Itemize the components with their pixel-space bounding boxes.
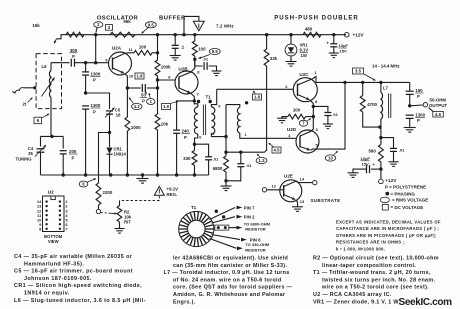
marker oval 7: [299, 120, 307, 126]
node U2B collector junction: [193, 58, 196, 61]
IC U2 pin 6: [59, 223, 61, 225]
resistor 15k: [66, 32, 84, 37]
svg-text:100: 100: [198, 47, 206, 52]
svg-text:CR1 — Silicon high-speed switc: CR1 — Silicon high-speed switching diode…: [14, 283, 142, 289]
capacitor C5 16pF trimmer: [106, 110, 113, 112]
marker oval 10: [325, 155, 335, 161]
svg-text:P: P: [184, 135, 187, 140]
svg-text:10μF: 10μF: [339, 43, 349, 48]
svg-text:35: 35: [28, 151, 33, 156]
svg-text:U2E: U2E: [284, 174, 293, 179]
wire secondary A top to U2C base: [217, 88, 294, 90]
svg-text:Johnson 187-0109-005.: Johnson 187-0109-005.: [24, 276, 92, 282]
U2B base wire: [158, 79, 176, 81]
IC U2 pin 8: [45, 228, 47, 230]
svg-text:9: 9: [218, 105, 220, 109]
svg-text:7.2 MHz: 7.2 MHz: [216, 23, 234, 28]
svg-text:16: 16: [116, 113, 121, 118]
svg-text:P: P: [142, 99, 145, 104]
svg-text:560: 560: [368, 148, 376, 153]
svg-text:U2 — RCA CA3045 array IC.: U2 — RCA CA3045 array IC.: [313, 292, 392, 298]
node base junction: [94, 61, 97, 64]
resistor 330: [194, 144, 196, 150]
svg-text:480: 480: [305, 27, 313, 32]
node bus ground stub: [141, 173, 144, 176]
svg-text:VR1 — Zener diode, 9.1 V, 1 W.: VR1 — Zener diode, 9.1 V, 1 W.: [313, 299, 400, 305]
node tank bottom: [378, 125, 381, 128]
capacitor 10uF supply: [333, 35, 335, 44]
ground .01 tank: [389, 161, 399, 163]
svg-text:1: 1: [245, 133, 247, 137]
svg-text:6: 6: [199, 136, 201, 140]
svg-text:300: 300: [70, 48, 78, 53]
wire L6 top to cap 300P: [51, 62, 70, 64]
resistor 100 buffer collector: [194, 35, 196, 41]
svg-text:U2D: U2D: [287, 127, 297, 132]
svg-text:1N914 or equiv.: 1N914 or equiv.: [24, 291, 70, 297]
svg-text:1W: 1W: [301, 53, 307, 58]
link coil 2t: [33, 86, 36, 89]
svg-text:OUTPUT: OUTPUT: [429, 103, 447, 108]
svg-text:240: 240: [182, 129, 190, 134]
svg-text:.1: .1: [181, 45, 185, 50]
wire dashed RIT link: [101, 212, 111, 215]
svg-text:10: 10: [129, 74, 134, 79]
svg-text:T1: T1: [191, 205, 197, 210]
wire ground bus: [41, 174, 209, 176]
capacitor 240 pF primary resonator: [177, 101, 195, 130]
node tank junction 4700: [361, 81, 364, 84]
svg-text:10: 10: [210, 132, 214, 136]
regulated source triangle +9.1V REG: [154, 186, 164, 195]
IC U2 pin 7: [59, 228, 61, 230]
IC U2 pin 14: [45, 200, 47, 202]
svg-text:33k: 33k: [270, 56, 278, 61]
svg-text:10μF: 10μF: [361, 156, 371, 161]
legend RMS voltage oval: [380, 197, 389, 203]
svg-text:56k: 56k: [123, 19, 131, 24]
ground collector bypass: [212, 70, 222, 72]
resistor 480: [303, 32, 321, 37]
T1 phasing dot secondary A: [209, 100, 212, 103]
marker oval 4.2: [132, 103, 142, 109]
svg-text:+12V: +12V: [353, 33, 365, 38]
svg-text:.01: .01: [332, 112, 338, 117]
ground 6800: [225, 181, 227, 186]
wire tank bottom tee: [41, 135, 64, 137]
svg-text:1000: 1000: [131, 125, 141, 130]
capacitor 300 pF: [70, 59, 72, 67]
node U2B base junction: [157, 76, 159, 80]
svg-text:1300: 1300: [91, 72, 101, 77]
svg-text:15V: 15V: [340, 49, 347, 54]
svg-text:1.8: 1.8: [254, 95, 261, 100]
svg-text:12: 12: [272, 184, 277, 189]
svg-text:T1: T1: [206, 95, 212, 100]
wire C5 junction to varicap bias line: [99, 133, 110, 184]
node 330 top: [193, 143, 196, 146]
node rail junction D: [182, 33, 185, 36]
svg-text:OTHERS ARE IN PICOFARADS (: OTHERS ARE IN PICOFARADS ( pF OR μμF);: [336, 233, 437, 238]
node U2B emitter junction: [193, 99, 196, 102]
svg-text:P: P: [93, 110, 96, 115]
node common junction: [312, 115, 315, 118]
IC U2 pin 12: [45, 210, 47, 212]
node 560 bottom: [379, 167, 382, 170]
toroid lead pin 2: [212, 217, 236, 223]
toroid lead pin 6: [212, 235, 241, 240]
svg-text:100k: 100k: [161, 65, 171, 70]
node emitter junction: [126, 86, 129, 89]
svg-text:6800: 6800: [213, 166, 223, 171]
svg-text:U2C: U2C: [299, 72, 309, 77]
svg-text:P: P: [93, 78, 96, 83]
wire divider mid to C5 string: [86, 93, 110, 109]
terminal RIT bias: [96, 209, 100, 213]
node center tap top: [224, 135, 227, 138]
marker box 3.5: [353, 68, 364, 74]
capacitor .01 center tap bypass: [239, 151, 242, 154]
node 6800 bottom: [224, 179, 227, 182]
svg-text:PIN 7: PIN 7: [244, 205, 255, 210]
IC U2 pin 13: [45, 205, 47, 207]
svg-text:ler 42A686CBI or equivalent).: ler 42A686CBI or equivalent). Use shield: [173, 256, 288, 262]
node bus 1000: [126, 173, 129, 176]
transistor U2B: [175, 71, 198, 94]
U2D collector: [300, 117, 313, 136]
node tank junction L7: [379, 81, 382, 84]
ground VR1: [286, 61, 297, 63]
svg-text:CAPACITANCE ARE IN MICROFAR: CAPACITANCE ARE IN MICROFARADS ( μF ) ;: [336, 226, 439, 231]
svg-text:200: 200: [69, 149, 77, 154]
node rail junction A: [94, 33, 97, 36]
IC U2 pin 3: [59, 210, 61, 212]
marker oval 9.5 rail: [145, 22, 156, 28]
U2A collector: [113, 53, 135, 59]
svg-text:P: P: [72, 54, 75, 59]
node tank junction emitter riser: [343, 81, 346, 84]
node rail junction B: [156, 33, 159, 36]
ground main bus: [142, 175, 144, 179]
svg-text:P: P: [417, 118, 420, 123]
node 100/100k junction: [156, 51, 159, 54]
svg-text:BUFFER: BUFFER: [159, 15, 186, 21]
svg-text:Amidon, G. R. Whitehouse and P: Amidon, G. R. Whitehouse and Palomar: [173, 292, 286, 298]
node center tap bottom: [224, 151, 227, 154]
capacitor .01 tank bottom: [381, 138, 394, 149]
U2B collector wire: [179, 59, 195, 77]
node tank bottom lower: [379, 136, 382, 139]
svg-text:TO 330-OHM: TO 330-OHM: [245, 242, 270, 247]
svg-text:L7 — Toroidal inductor, 0.9 μH: L7 — Toroidal inductor, 0.9 μH. Use 12 t…: [164, 270, 290, 276]
node output divider: [408, 104, 411, 107]
svg-text:= DC VOLTAGE: = DC VOLTAGE: [391, 205, 424, 210]
svg-text:9.5: 9.5: [148, 22, 155, 27]
svg-text:SeekIC.com: SeekIC.com: [399, 297, 453, 308]
svg-text:1N914: 1N914: [114, 152, 127, 157]
svg-text:RIT: RIT: [124, 220, 131, 225]
svg-text:+: +: [326, 41, 329, 46]
svg-text:.01: .01: [399, 148, 405, 153]
node 50P right: [156, 86, 159, 89]
svg-text:OSCILLATOR: OSCILLATOR: [97, 15, 139, 21]
ground 10uF decoupling: [348, 172, 359, 174]
resistor 33k bias: [266, 35, 268, 49]
svg-text:1300: 1300: [91, 103, 101, 108]
T1 phasing dot secondary B: [245, 101, 248, 104]
node rail junction G (zener top): [289, 33, 292, 36]
svg-text:twisted six turns per inch. No: twisted six turns per inch. No. 28 enam.: [322, 277, 435, 283]
potentiometer R2 10k RIT: [117, 206, 122, 223]
capacitor 50 pF coupling: [127, 87, 140, 89]
svg-text:L6: L6: [41, 64, 47, 69]
svg-text:4700: 4700: [367, 102, 377, 107]
svg-text:REG.: REG.: [167, 192, 178, 197]
svg-text:10: 10: [328, 156, 333, 161]
ground .1 cap: [170, 55, 181, 57]
ground R2: [115, 228, 125, 230]
wire doubler output rail: [316, 81, 410, 83]
resistor 1000 emitter: [126, 88, 128, 117]
svg-text:C5 — 16-pF air trimmer, pc-boa: C5 — 16-pF air trimmer, pc-board mount: [14, 269, 133, 275]
terminal +12V top: [343, 34, 346, 36]
svg-text:4.6: 4.6: [435, 112, 442, 117]
node bus divider: [84, 173, 87, 176]
node rail junction E: [193, 33, 196, 36]
svg-text:+12V: +12V: [385, 178, 397, 183]
wire 300P to base node: [75, 62, 96, 64]
node divider top: [84, 61, 87, 64]
marker box 4.5: [272, 147, 281, 153]
U2C emitter: [298, 95, 310, 100]
resistor 4700: [362, 82, 364, 95]
svg-text:Hammarlund HF-35).: Hammarlund HF-35).: [24, 261, 84, 267]
regulated supply triangle at buffer: [184, 16, 199, 34]
resistor 6800 center tap: [225, 152, 227, 156]
toroid lead pin 7: [210, 208, 236, 220]
marker oval 1.3: [256, 157, 267, 163]
capacitor 200 pF: [60, 150, 67, 152]
ground 10uF supply: [329, 52, 339, 54]
marker box 3: [106, 25, 113, 31]
svg-text:4.2: 4.2: [134, 104, 141, 109]
svg-text:9.1V: 9.1V: [300, 48, 309, 53]
terminal +12V bottom: [379, 179, 384, 184]
svg-text:core. (See QST ads for toroid: core. (See QST ads for toroid suppliers …: [173, 285, 293, 291]
marker box 1.8 U2A emitter: [135, 73, 144, 79]
U2E collector pin 14: [284, 181, 313, 187]
svg-text:of No. 24 enam. wire on a T50-: of No. 24 enam. wire on a T50-6 toroid: [173, 277, 281, 283]
capacitor .01 across 330: [195, 144, 209, 156]
transistor U2D: [296, 130, 319, 153]
capacitor 10uF decoupling: [371, 168, 381, 170]
svg-text:TUNING: TUNING: [15, 157, 31, 162]
wire 15k left lead with arrow: [57, 35, 67, 39]
T1 phasing dot primary: [197, 100, 200, 103]
svg-text:PIN 2: PIN 2: [244, 215, 255, 220]
IC U2 pin 5: [59, 219, 61, 221]
svg-text:RESISTOR: RESISTOR: [245, 226, 265, 231]
IC U2 pin 9: [45, 223, 47, 225]
ground 100 common: [282, 117, 288, 119]
node bus CR1: [109, 173, 112, 176]
svg-text:RESISTANCES ARE IN OHMS ;: RESISTANCES ARE IN OHMS ;: [336, 240, 404, 245]
svg-text:15k: 15k: [32, 23, 40, 28]
svg-text:.01: .01: [213, 156, 219, 161]
svg-text:SUBSTRATE: SUBSTRATE: [311, 198, 341, 203]
svg-text:+: +: [372, 162, 375, 167]
IC U2 pin 10: [45, 219, 47, 221]
U2C collector: [298, 77, 317, 86]
svg-text:k • 1 000, M•1000 000.: k • 1 000, M•1000 000.: [336, 246, 385, 251]
node rail junction C: [174, 33, 177, 36]
capacitor .1 rail bypass: [174, 35, 176, 45]
node bus 330: [193, 173, 196, 176]
U2D emitter: [300, 147, 310, 151]
resistor 100k: [155, 60, 160, 76]
svg-text:2200: 2200: [103, 190, 113, 195]
marker box 1.9 emitter: [162, 104, 171, 110]
IC U2 pin 4: [59, 214, 61, 216]
marker oval 2: [94, 22, 103, 28]
svg-text:EXCEPT AS INDICATED, DECIMA: EXCEPT AS INDICATED, DECIMAL VALUES OF: [336, 220, 441, 225]
wire rail to base node: [95, 35, 97, 63]
U2B emitter: [179, 88, 191, 93]
T1 primary winding: [194, 101, 198, 107]
capacitor .01 collector bypass: [195, 59, 203, 66]
svg-text:10k: 10k: [161, 122, 169, 127]
IC U2 pin 2: [59, 205, 61, 207]
svg-text:330: 330: [183, 156, 191, 161]
svg-text:can (35-mm film canister or Mi: can (35-mm film canister or Miller S-33)…: [173, 263, 287, 269]
node rail junction F (33k top): [265, 33, 268, 36]
transistor U2C: [293, 78, 317, 102]
svg-text:= PHASING: = PHASING: [391, 191, 416, 196]
capacitor 150 pF output: [409, 82, 411, 90]
resistor 100 collector: [134, 50, 152, 55]
ground U2E: [292, 206, 303, 208]
ground output divider: [404, 127, 416, 129]
marker oval 1: [147, 99, 155, 105]
terminal 50-ohm output: [410, 104, 423, 107]
T1 core: [202, 105, 204, 136]
svg-text:T1 — Trifilar-wound trans. 2 μ: T1 — Trifilar-wound trans. 2 μH, 20 turn…: [313, 270, 431, 276]
svg-text:14 - 14.4 MHz: 14 - 14.4 MHz: [372, 63, 400, 68]
svg-text:.01: .01: [203, 57, 209, 62]
marker box 4.6 output: [433, 111, 444, 117]
U2A emitter: [113, 68, 125, 73]
capacitor 1300 pF output: [406, 114, 414, 116]
T1 secondary A winding: [211, 89, 216, 107]
diode CR1 1N914: [109, 133, 111, 148]
svg-text:P: P: [417, 94, 420, 99]
svg-text:P: P: [72, 156, 75, 161]
svg-text:2t: 2t: [23, 102, 27, 107]
svg-text:R2 — Optional circuit (see tex: R2 — Optional circuit (see text). 10,000…: [313, 256, 439, 262]
svg-text:P = POLYSTYRENE: P = POLYSTYRENE: [385, 185, 426, 190]
diode VR1 zener 9.1V: [290, 35, 292, 45]
node bus 240P: [175, 173, 178, 176]
wire center tap to 33k: [226, 141, 267, 152]
node C5-CR1 junction: [108, 131, 111, 134]
svg-text:3.5: 3.5: [355, 69, 362, 74]
svg-text:linear-taper composition contr: linear-taper composition control.: [322, 263, 416, 269]
svg-text:100: 100: [139, 44, 147, 49]
marker oval 6: [79, 181, 88, 187]
svg-text:100: 100: [293, 107, 301, 112]
svg-text:50-OHM: 50-OHM: [430, 97, 447, 102]
svg-text:U2B: U2B: [178, 67, 188, 72]
svg-text:4.5: 4.5: [274, 148, 281, 153]
capacitor 1300 pF lower: [82, 105, 89, 107]
svg-text:PUSH-PUSH DOUBLER: PUSH-PUSH DOUBLER: [274, 15, 359, 21]
capacitor 1300 pF upper: [85, 63, 87, 72]
svg-text:1.9: 1.9: [163, 104, 170, 109]
wire +9.1V rail: [66, 34, 346, 36]
svg-text:1300: 1300: [415, 112, 425, 117]
svg-text:VIEW: VIEW: [48, 239, 59, 244]
resistor 10k: [157, 88, 159, 114]
wire rail to 100k: [157, 35, 159, 60]
legend DC voltage box: [382, 204, 388, 210]
U2E emitter pin 13: [284, 195, 296, 200]
wire dashed from 9.1V REG triangle: [120, 196, 160, 201]
node rail junction H (+12V): [332, 33, 335, 36]
resistor 2200: [96, 183, 101, 205]
marker box 9: [34, 117, 42, 124]
marker box 1.8 U2C base: [253, 94, 262, 100]
node U2C emitter junction: [312, 105, 315, 108]
transistor U2A: [109, 52, 132, 75]
svg-text:Engrs.).: Engrs.).: [173, 299, 196, 305]
svg-text:L6 — Slug-tuned inductor, 3.6: L6 — Slug-tuned inductor, 3.6 to 8.5 μH …: [14, 298, 146, 304]
dashed shield box around L6: [36, 54, 61, 109]
svg-text:1.3: 1.3: [259, 158, 266, 163]
wire base node to U2A base: [96, 62, 109, 64]
svg-text:= RMS VOLTAGE: = RMS VOLTAGE: [392, 198, 428, 203]
svg-text:.01: .01: [246, 163, 252, 168]
resistor 56k: [110, 32, 135, 37]
node divider mid: [84, 91, 87, 94]
T1 secondary B winding: [226, 105, 240, 108]
legend phasing dot: [385, 192, 389, 196]
node bus 10k: [156, 173, 159, 176]
toroid lead to 330 resistor: [210, 239, 237, 249]
svg-text:+9.1V: +9.1V: [167, 187, 179, 192]
svg-text:RESISTOR: RESISTOR: [245, 248, 265, 253]
svg-text:U2: U2: [48, 189, 54, 194]
resistor 100 common: [288, 114, 306, 119]
capacitor .01 common bypass: [313, 106, 328, 112]
node bus C4: [62, 173, 65, 176]
svg-text:wire on a T50-2 toroid core (s: wire on a T50-2 toroid core (see text).: [321, 285, 429, 291]
transistor U2E substrate: [280, 180, 302, 202]
resistor 560: [380, 138, 382, 145]
svg-text:150: 150: [415, 88, 423, 93]
svg-text:13: 13: [300, 199, 305, 204]
toroid lead to 6800 resistor: [215, 225, 229, 230]
svg-text:U2A: U2A: [112, 46, 122, 51]
svg-text:L7: L7: [383, 86, 389, 91]
capacitor C4 35pF tuning: [37, 148, 45, 150]
IC U2 pin 1: [59, 200, 61, 202]
IC U2 pin 11: [45, 214, 47, 216]
svg-text:15V: 15V: [362, 161, 369, 166]
terminal pin 12: [262, 188, 266, 192]
svg-text:1.8: 1.8: [137, 74, 144, 79]
marker oval 9.5 buffer: [209, 48, 220, 54]
svg-text:9.5: 9.5: [212, 49, 219, 54]
